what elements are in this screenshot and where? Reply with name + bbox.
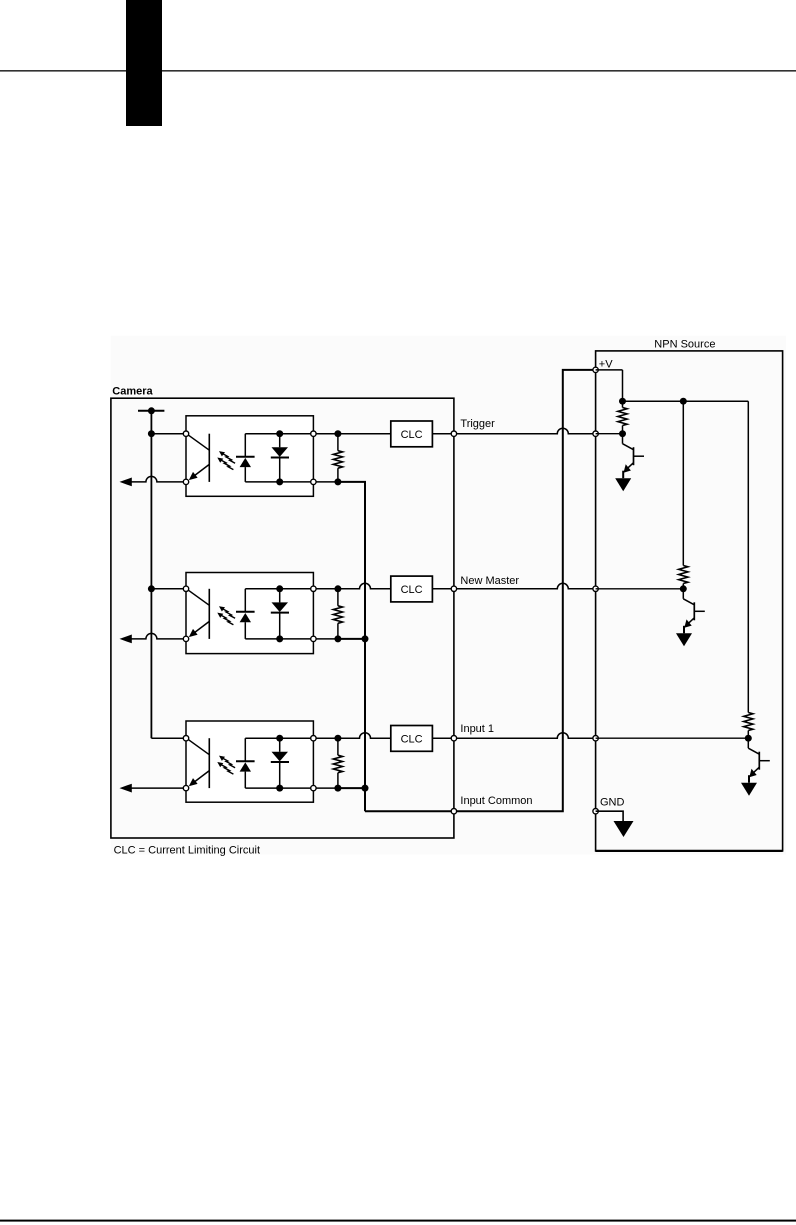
svg-text:Camera: Camera [112,386,153,398]
svg-text:Input Common: Input Common [460,795,532,807]
svg-text:CLC = Current Limiting Circuit: CLC = Current Limiting Circuit [114,844,260,856]
svg-text:+V: +V [599,358,613,370]
svg-text:NPN Source: NPN Source [654,339,715,351]
svg-text:CLC: CLC [401,429,423,441]
svg-text:GND: GND [600,796,625,808]
svg-text:New Master: New Master [460,575,519,587]
svg-text:Trigger: Trigger [460,418,495,430]
svg-text:CLC: CLC [401,584,423,596]
svg-text:Input 1: Input 1 [460,723,494,735]
svg-text:CLC: CLC [401,733,423,745]
